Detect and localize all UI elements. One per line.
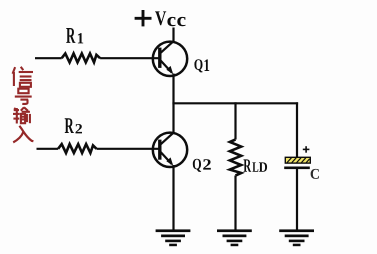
wire Q1 emitter down xyxy=(172,74,174,104)
wire input 2 left xyxy=(37,148,59,150)
resistor RLD xyxy=(230,140,241,176)
ground 2 xyxy=(217,229,252,246)
wire node horizontal xyxy=(172,102,298,104)
capacitor C plus sign xyxy=(303,146,310,153)
label R1 xyxy=(66,28,75,43)
label Q1 xyxy=(194,59,202,72)
wire node to RLD xyxy=(234,102,236,139)
ground 1 xyxy=(156,229,191,246)
label C xyxy=(311,169,319,179)
char 信 xyxy=(13,67,33,87)
resistor R2 xyxy=(58,144,96,153)
wire Q2 emitter to ground xyxy=(172,165,174,230)
label R2 xyxy=(65,118,74,133)
ground 3 xyxy=(279,229,314,246)
wire node to Q2 collector xyxy=(172,103,174,134)
label Q2 xyxy=(193,159,201,172)
char 输 xyxy=(13,107,30,123)
label +Vcc xyxy=(135,10,152,26)
wire RLD to ground xyxy=(234,176,236,231)
wire input 1 left xyxy=(35,57,62,59)
wire R2 to Q2 base xyxy=(97,148,160,150)
char 入 xyxy=(13,126,33,143)
wire node to capacitor C xyxy=(296,102,298,157)
capacitor C top plate xyxy=(285,157,310,163)
transistor Q1 xyxy=(153,41,187,76)
wire Vcc to Q1 collector xyxy=(172,28,174,43)
transistor Q2 xyxy=(153,133,187,167)
wire capacitor to ground xyxy=(296,169,298,230)
label RLD xyxy=(244,159,252,171)
char 号 xyxy=(15,89,32,104)
label 信号输入 (red, drawn glyph strokes) xyxy=(13,67,34,143)
capacitor C bottom plate xyxy=(284,167,310,170)
wire R1 to Q1 base xyxy=(100,57,159,59)
resistor R1 xyxy=(62,54,100,63)
